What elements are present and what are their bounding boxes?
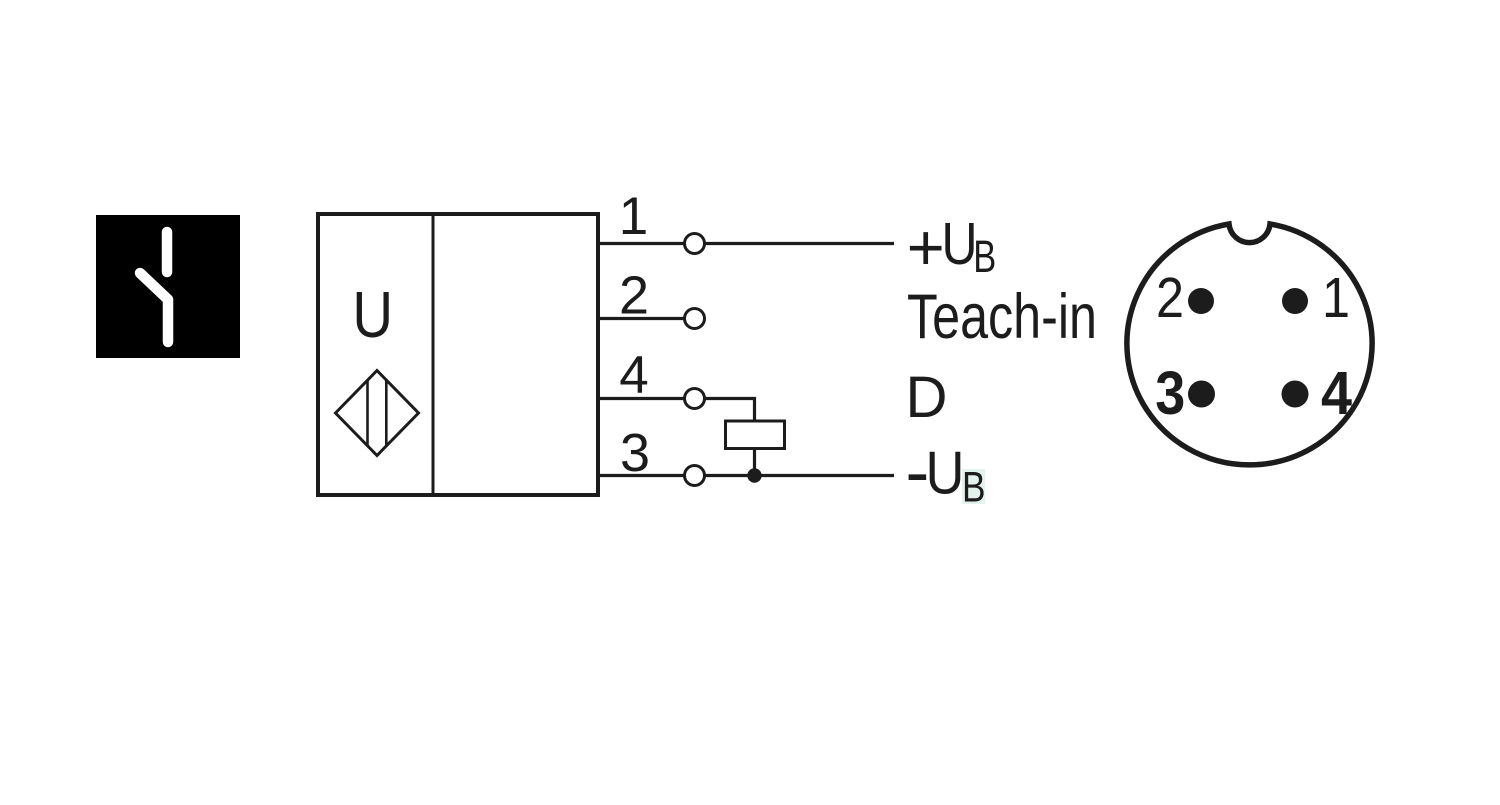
svg-text:3: 3 bbox=[620, 423, 650, 483]
svg-text:1: 1 bbox=[1322, 266, 1350, 330]
svg-text:3: 3 bbox=[1155, 359, 1185, 427]
svg-text:4: 4 bbox=[619, 346, 648, 405]
svg-text:U: U bbox=[926, 440, 965, 507]
svg-text:2: 2 bbox=[1156, 266, 1184, 330]
svg-text:2: 2 bbox=[619, 266, 649, 326]
svg-text:B: B bbox=[973, 231, 996, 282]
svg-text:+: + bbox=[907, 211, 945, 284]
svg-text:U: U bbox=[352, 278, 393, 351]
svg-text:4: 4 bbox=[1321, 359, 1352, 427]
svg-text:U: U bbox=[942, 211, 978, 277]
svg-text:1: 1 bbox=[619, 187, 648, 246]
svg-text:Teach-in: Teach-in bbox=[907, 282, 1097, 352]
svg-text:B: B bbox=[962, 464, 986, 512]
svg-text:D: D bbox=[906, 365, 948, 430]
